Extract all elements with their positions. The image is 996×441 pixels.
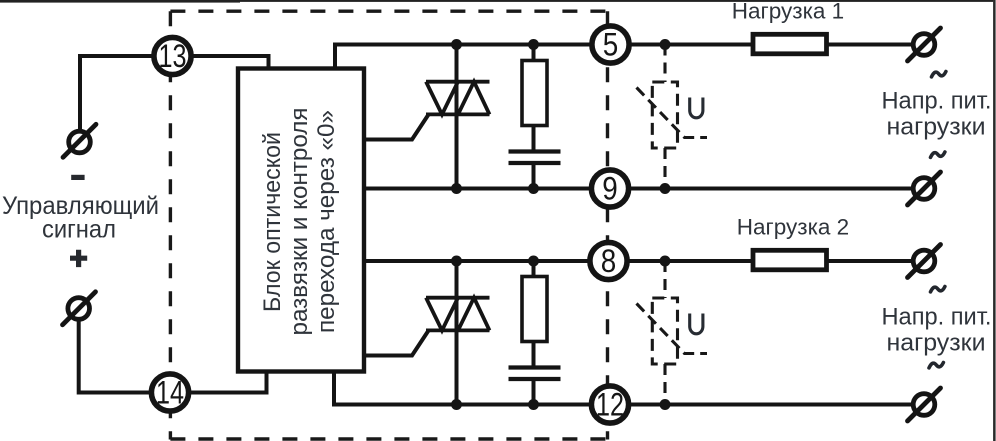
svg-text:развязки и контроля: развязки и контроля bbox=[286, 108, 313, 336]
svg-text:Нагрузка 1: Нагрузка 1 bbox=[732, 0, 844, 24]
svg-text:13: 13 bbox=[159, 38, 187, 74]
svg-text:Напр. пит.: Напр. пит. bbox=[882, 304, 992, 331]
svg-text:14: 14 bbox=[156, 375, 184, 411]
svg-text:Блок оптической: Блок оптической bbox=[259, 132, 286, 312]
svg-text:Напр. пит.: Напр. пит. bbox=[882, 88, 992, 115]
svg-text:перехода через «0»: перехода через «0» bbox=[313, 110, 340, 333]
svg-text:нагрузки: нагрузки bbox=[887, 330, 986, 357]
svg-text:сигнал: сигнал bbox=[42, 216, 116, 244]
svg-text:нагрузки: нагрузки bbox=[887, 114, 986, 141]
svg-text:12: 12 bbox=[596, 387, 624, 423]
svg-text:8: 8 bbox=[601, 243, 617, 279]
svg-text:5: 5 bbox=[603, 27, 619, 63]
svg-text:Нагрузка 2: Нагрузка 2 bbox=[737, 215, 849, 240]
svg-text:9: 9 bbox=[602, 171, 618, 207]
